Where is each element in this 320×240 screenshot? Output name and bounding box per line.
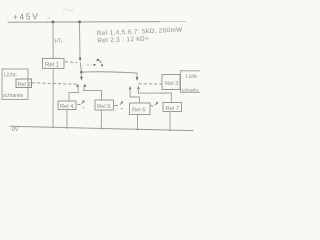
- svg-text:Rel 4: Rel 4: [60, 104, 74, 110]
- faint dashes near dots: [87, 64, 95, 66]
- arrowhead: S2 common tip: [136, 77, 139, 81]
- node dot B: [101, 64, 103, 66]
- link cluster between Rel 6 and Rel 7: [151, 105, 154, 107]
- contact S1 blade: [80, 63, 81, 73]
- dashed link: Rel 1 to contact S1: [65, 61, 77, 64]
- wire: long feed line from S1 to S2: [81, 72, 137, 73]
- relay coil Rel 1: [43, 58, 65, 68]
- wire: S2 left throw to Rel 6: [130, 88, 139, 104]
- dashed link: contact S2 to Rel 3: [139, 83, 162, 85]
- light barrier box right (Lichtschranke): [181, 71, 203, 93]
- paper background: [0, 0, 200, 140]
- throw arrow: S1 right: [84, 84, 87, 87]
- link cluster between Rel 5 and Rel 6: [115, 105, 119, 107]
- node: dots where coil wires meet 0V rail: [52, 127, 54, 129]
- wire: Rel 1 coil down to 0V rail: [52, 68, 54, 127]
- dashed link: Rel 2 to contact S1: [32, 83, 77, 84]
- wire: S1 right throw to Rel 5: [84, 86, 102, 101]
- faint smudge above rail: [63, 9, 73, 11]
- link cluster between Rel 4 and Rel 5: [78, 104, 81, 106]
- svg-text:Licht-: Licht-: [186, 74, 199, 80]
- faint tick near rail start: [47, 17, 51, 20]
- svg-text:μT₁: μT₁: [55, 38, 63, 44]
- relay coil Rel 6: [130, 103, 151, 115]
- throw arrow: S2 left: [129, 86, 132, 89]
- throw arrow: S1 left: [76, 84, 79, 87]
- relay coil Rel 4: [58, 101, 76, 110]
- svg-text:Rel 7: Rel 7: [166, 106, 180, 112]
- arrowhead: S1 common tip: [79, 58, 82, 62]
- svg-text:Licht-: Licht-: [4, 73, 18, 79]
- wire: Rel 7 down to 0V rail: [169, 112, 171, 131]
- light barrier box left (Lichtschranke): [2, 69, 28, 100]
- throw arrow: S2 right: [137, 86, 140, 89]
- wire: rail down to Rel 1 coil: [52, 22, 54, 59]
- node: junction dot at S1 feed: [80, 71, 83, 74]
- node: junction dot on rail at x=79: [78, 21, 81, 24]
- relay coil Rel 5: [95, 100, 114, 110]
- wire: top rail faded right end: [160, 20, 186, 22]
- svg-text:Rel 1: Rel 1: [45, 62, 60, 68]
- wire: S2 right throw to Rel 7: [138, 88, 171, 104]
- arrowhead: S1 lower common tip: [80, 77, 83, 81]
- wire: S1 left throw to Rel 4: [69, 86, 78, 102]
- 0V bottom rail: [10, 126, 193, 130]
- relay coil Rel 3: [162, 75, 180, 90]
- wire: +45V top rail: [8, 21, 160, 24]
- wire: Rel 6 down to 0V rail: [137, 115, 139, 131]
- svg-text:Rel 6: Rel 6: [132, 108, 146, 114]
- stray contact arrow near x=97: [98, 59, 102, 63]
- wire: Rel 5 down to 0V rail: [100, 110, 102, 129]
- node dot A: [94, 64, 96, 66]
- svg-text:Rel 3: Rel 3: [165, 81, 179, 87]
- svg-text:+45V: +45V: [13, 11, 40, 22]
- node: junction dot on rail at x=53: [52, 21, 55, 24]
- svg-text:schranke: schranke: [182, 87, 200, 92]
- wire: Rel 4 down to 0V rail: [66, 110, 68, 129]
- wire: S1 lower common: [80, 72, 82, 78]
- svg-text:Rel 2: Rel 2: [18, 82, 32, 88]
- relay coil Rel 7: [163, 103, 182, 112]
- svg-text:schranke: schranke: [3, 93, 24, 99]
- wire: rail down to contact S1 common: [79, 22, 82, 59]
- svg-text:Rel 5: Rel 5: [97, 104, 111, 110]
- relay coil Rel 2: [16, 79, 32, 88]
- svg-text:-0V: -0V: [10, 127, 19, 133]
- wire: S2 drop from long feed line: [136, 73, 138, 78]
